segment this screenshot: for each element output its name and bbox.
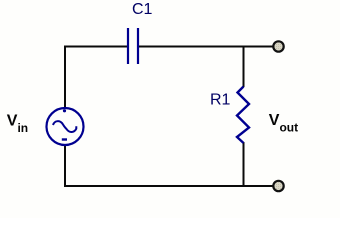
wire top-left horizontal (left corner to capacitor left plate) [64,46,127,48]
source polarity minus dash (bottom) [62,138,67,140]
AC voltage source V1 (circle with sine wave) [47,108,84,145]
wire left vertical upper (top-left corner down to source top) [64,46,66,109]
output terminal bottom (Vout -) [273,181,283,191]
capacitor C1 (two vertical plates) [128,28,138,64]
resistor R1 (zigzag) [237,87,249,144]
wire top-right horizontal (capacitor right plate to output terminal) [139,46,273,48]
wire resistor branch upper stub (top wire to resistor) [243,46,245,88]
wire left vertical lower (source bottom down to bottom-left corner) [64,145,66,187]
wire bottom horizontal [64,185,273,187]
svg-text:Vout: Vout [269,112,298,135]
svg-text:Vin: Vin [7,113,28,136]
output terminal top (Vout +) [273,41,283,51]
source polarity plus dot (top) [63,109,66,112]
svg-text:C1: C1 [132,1,153,18]
svg-text:R1: R1 [210,92,231,109]
wire resistor branch lower stub (resistor to bottom wire) [243,142,245,187]
